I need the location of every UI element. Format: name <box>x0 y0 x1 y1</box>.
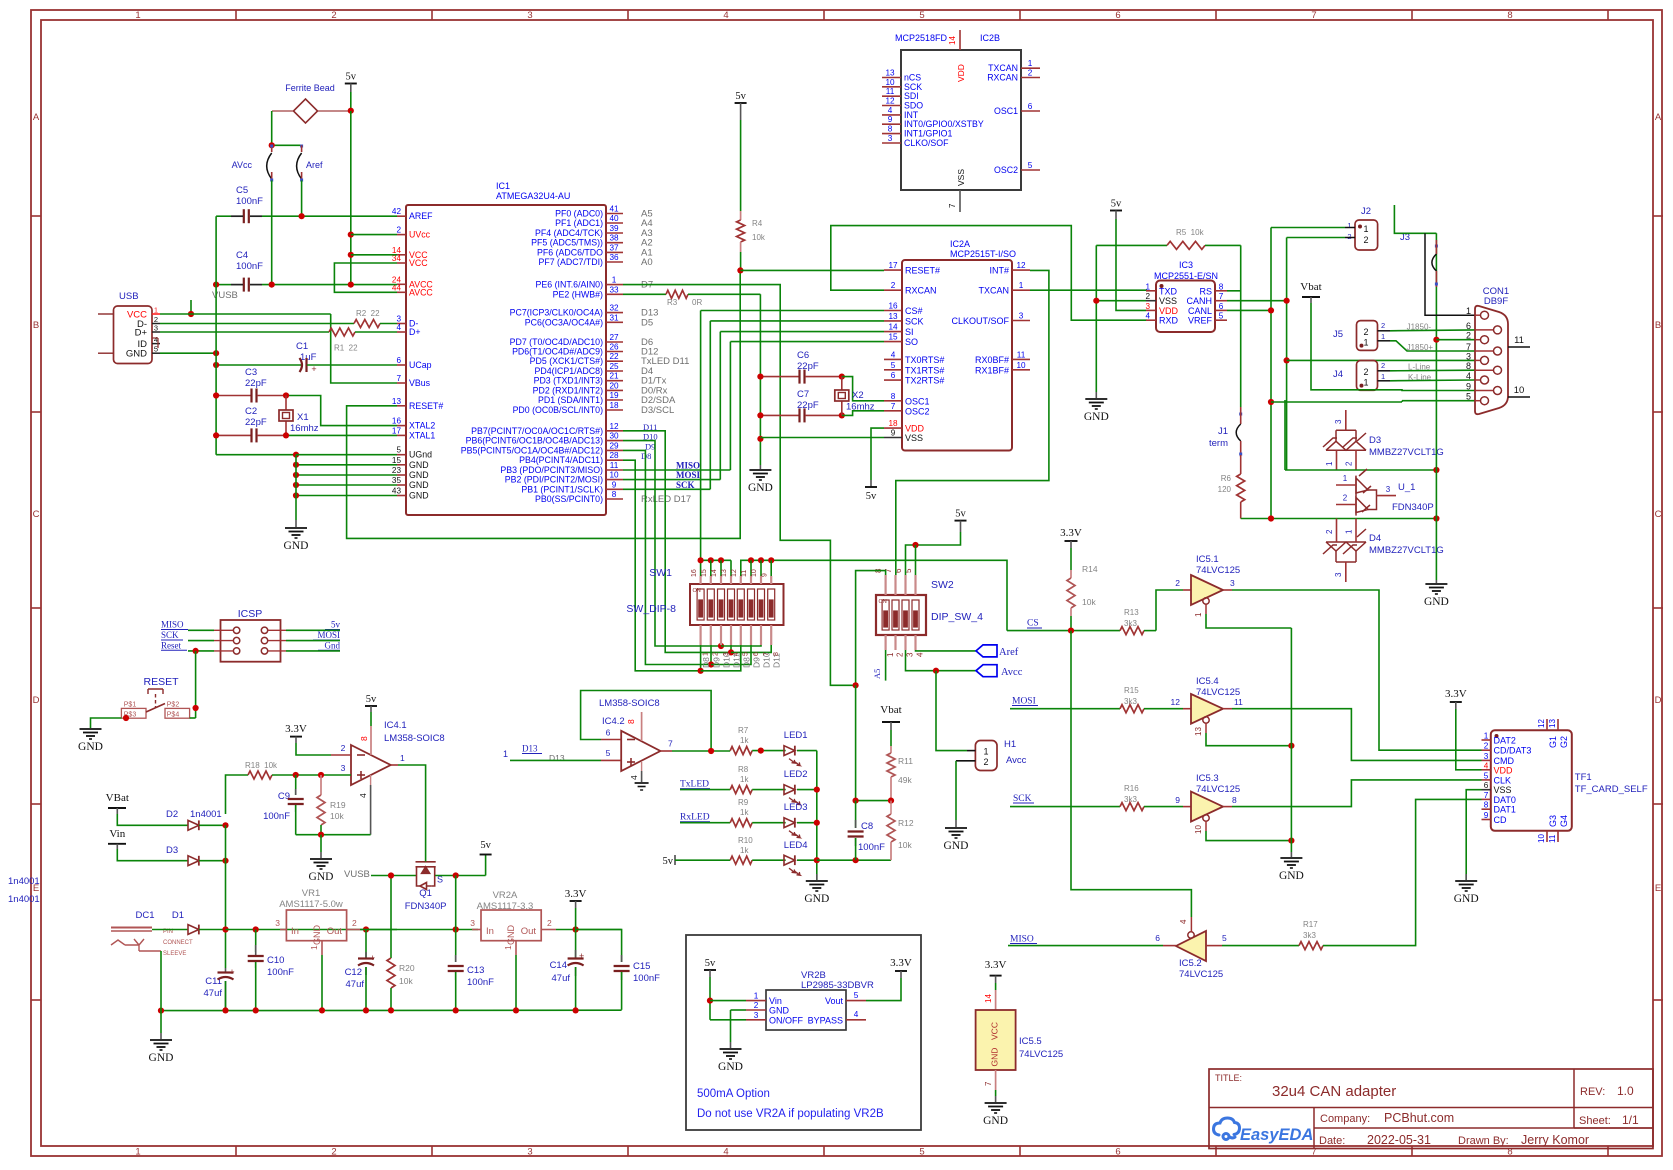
svg-text:11: 11 <box>1017 350 1026 359</box>
svg-text:41: 41 <box>609 205 619 214</box>
wire 5v to IC3 VDD <box>1116 219 1146 310</box>
svg-text:1: 1 <box>1019 281 1024 290</box>
svg-text:Out: Out <box>327 926 343 937</box>
svg-text:AREF: AREF <box>409 211 433 221</box>
net label A5 wire at SW2 pin1 <box>885 650 887 681</box>
wire Vout to 3.3V flag <box>866 978 901 1001</box>
svg-text:In: In <box>486 926 494 937</box>
svg-text:100nF: 100nF <box>236 196 263 207</box>
svg-text:CD: CD <box>1494 815 1507 825</box>
ground GND at TF1 <box>1465 874 1467 880</box>
IC TF1 TF_CARD_SELF body <box>1491 730 1572 831</box>
svg-text:In: In <box>291 926 299 937</box>
svg-text:MCP2551-E/SN: MCP2551-E/SN <box>1154 271 1218 281</box>
IC5.2 enable pin 4 <box>1190 917 1192 932</box>
svg-text:14: 14 <box>711 569 718 577</box>
svg-text:13: 13 <box>392 397 402 406</box>
svg-text:RX1BF#: RX1BF# <box>975 365 1009 375</box>
svg-text:DC1: DC1 <box>135 910 154 921</box>
svg-text:10k: 10k <box>898 840 912 850</box>
svg-text:5: 5 <box>606 748 611 758</box>
svg-text:1: 1 <box>1345 529 1354 534</box>
svg-text:13: 13 <box>885 69 895 78</box>
wire SW2 pin8 top to divider column <box>856 571 886 686</box>
svg-text:5v: 5v <box>866 491 877 502</box>
TF1 G pins top <box>1546 719 1548 730</box>
svg-text:2: 2 <box>1175 578 1180 588</box>
svg-text:LM358-SOIC8: LM358-SOIC8 <box>599 698 660 709</box>
svg-text:13: 13 <box>1548 719 1557 728</box>
svg-text:1.0: 1.0 <box>1617 1084 1634 1098</box>
svg-text:29: 29 <box>609 441 619 450</box>
svg-text:C10: C10 <box>267 955 284 966</box>
ground GND at VR2B <box>730 1042 732 1048</box>
svg-text:8: 8 <box>1466 361 1471 371</box>
svg-text:9: 9 <box>761 573 768 577</box>
svg-text:R7: R7 <box>738 726 749 735</box>
svg-text:R6: R6 <box>1221 474 1232 483</box>
svg-text:1: 1 <box>612 276 617 285</box>
svg-text:J1: J1 <box>1218 426 1228 437</box>
wire HWB/VSS ground column <box>759 294 761 465</box>
svg-text:D2: D2 <box>166 809 178 820</box>
svg-text:47uf: 47uf <box>204 988 223 999</box>
svg-text:120: 120 <box>1218 485 1232 494</box>
svg-text:VDD: VDD <box>1159 306 1179 316</box>
svg-text:10: 10 <box>1016 361 1026 370</box>
svg-text:D9: D9 <box>711 657 721 668</box>
svg-text:PE2 (HWB#): PE2 (HWB#) <box>553 289 603 299</box>
svg-text:D5: D5 <box>641 317 653 328</box>
svg-text:C6: C6 <box>797 350 809 361</box>
svg-text:5v: 5v <box>663 856 674 867</box>
svg-text:7: 7 <box>1311 10 1316 21</box>
IC5.3 enable to gnd bus <box>1205 821 1207 831</box>
wire OSC2 net <box>842 411 884 416</box>
svg-text:Out: Out <box>521 926 537 937</box>
svg-text:LED1: LED1 <box>784 730 808 741</box>
svg-text:GND: GND <box>804 893 829 905</box>
svg-text:D3: D3 <box>1369 435 1381 446</box>
svg-text:5v: 5v <box>735 91 746 102</box>
svg-text:32: 32 <box>609 304 619 313</box>
TF1 left pins <box>1482 739 1491 741</box>
svg-text:DAT0: DAT0 <box>1494 795 1516 805</box>
svg-text:1n4001: 1n4001 <box>8 876 40 887</box>
svg-text:OSC2: OSC2 <box>905 406 930 416</box>
svg-text:6: 6 <box>1115 10 1120 21</box>
svg-text:GND: GND <box>1084 411 1109 423</box>
svg-text:1: 1 <box>309 945 319 950</box>
power flag 5v above SW2 <box>955 520 967 522</box>
wire Q1 gate from comparator <box>425 858 427 862</box>
svg-text:IC5.4: IC5.4 <box>1196 676 1219 687</box>
svg-text:+: + <box>370 953 375 963</box>
svg-text:3: 3 <box>527 10 532 21</box>
svg-text:1: 1 <box>1363 338 1368 348</box>
svg-text:R15: R15 <box>1124 686 1139 695</box>
svg-text:22: 22 <box>609 352 619 361</box>
svg-text:C1: C1 <box>296 341 308 352</box>
svg-text:6: 6 <box>891 371 896 380</box>
svg-text:C9: C9 <box>278 791 290 802</box>
svg-text:R10: R10 <box>738 836 753 845</box>
svg-text:4: 4 <box>1466 371 1471 381</box>
svg-text:2: 2 <box>891 281 896 290</box>
svg-text:SLEEVE: SLEEVE <box>163 951 186 957</box>
svg-text:IC2B: IC2B <box>980 33 1000 43</box>
svg-text:P$1: P$1 <box>124 702 137 709</box>
svg-text:PC6(OC3A/OC4A#): PC6(OC3A/OC4A#) <box>525 317 603 327</box>
svg-text:12: 12 <box>1016 261 1026 270</box>
power flag 5v at ferrite <box>345 83 357 85</box>
svg-text:J4: J4 <box>1333 369 1343 380</box>
svg-text:14: 14 <box>948 36 957 45</box>
svg-text:2: 2 <box>1345 461 1354 466</box>
pin header H1 Avcc <box>975 741 997 771</box>
ground GND under D3 D4 <box>1435 580 1437 583</box>
svg-text:0R: 0R <box>692 298 702 307</box>
svg-text:VUSB: VUSB <box>344 869 370 880</box>
svg-text:MOSI: MOSI <box>317 630 340 640</box>
svg-text:PF1 (ADC1): PF1 (ADC1) <box>555 218 603 228</box>
svg-text:D+: D+ <box>409 327 421 337</box>
svg-text:CLKO/SOF: CLKO/SOF <box>904 138 949 148</box>
wire D3 cathode rail to GND column <box>1285 469 1436 471</box>
svg-text:PB4(PCINT4/ADC11): PB4(PCINT4/ADC11) <box>519 455 603 465</box>
svg-text:1k: 1k <box>740 736 749 745</box>
svg-text:3: 3 <box>1386 485 1391 494</box>
svg-text:R20: R20 <box>399 963 415 973</box>
IC3 left pins <box>1146 290 1156 292</box>
svg-text:CANH: CANH <box>1186 296 1212 306</box>
svg-text:12: 12 <box>885 97 895 106</box>
svg-text:C12: C12 <box>345 967 362 978</box>
svg-text:13: 13 <box>721 569 728 577</box>
svg-text:16: 16 <box>392 417 402 426</box>
svg-text:Company:: Company: <box>1320 1113 1370 1125</box>
wire CS row <box>1007 630 1120 632</box>
svg-text:500mA Option: 500mA Option <box>697 1088 770 1100</box>
ground GND at IC5.5 <box>985 1102 1007 1104</box>
svg-text:1k: 1k <box>740 808 749 817</box>
svg-text:10k: 10k <box>399 976 413 986</box>
svg-text:+: + <box>229 967 234 977</box>
svg-text:9: 9 <box>1466 382 1471 392</box>
svg-text:EasyEDA: EasyEDA <box>1240 1126 1313 1144</box>
svg-text:5: 5 <box>919 10 924 21</box>
wire Reset net to RESET switch <box>195 651 197 718</box>
wire 3.3V to minus input <box>295 737 297 743</box>
svg-text:26: 26 <box>609 343 619 352</box>
svg-text:GND: GND <box>312 925 322 946</box>
svg-text:3.3V: 3.3V <box>1060 527 1082 539</box>
ground GND at enable bus <box>1290 852 1292 857</box>
IC1 left pins <box>397 215 406 217</box>
svg-text:CS#: CS# <box>905 306 923 316</box>
svg-text:C: C <box>33 509 40 520</box>
svg-text:1k: 1k <box>740 846 749 855</box>
svg-text:8: 8 <box>773 652 780 656</box>
svg-text:3: 3 <box>1019 312 1024 321</box>
IC IC5.5 74LVC125 power part <box>995 983 997 990</box>
svg-text:C: C <box>1655 509 1662 520</box>
svg-text:FDN340P: FDN340P <box>405 901 447 912</box>
svg-text:GND: GND <box>1279 870 1304 882</box>
svg-text:10: 10 <box>1194 825 1203 834</box>
svg-text:4: 4 <box>723 1147 728 1158</box>
IC5.4 output to TF CMD <box>1223 708 1232 710</box>
svg-text:49k: 49k <box>898 775 912 785</box>
svg-text:21: 21 <box>609 372 619 381</box>
svg-text:2: 2 <box>331 10 336 21</box>
wire D8-D11 nest from IC1 to SW1 bottom <box>623 431 731 653</box>
wire D7 net from IC1 pin1 <box>623 285 856 686</box>
svg-text:C3: C3 <box>245 367 257 378</box>
wire INT# net from IC2A to SW2 pin7 <box>896 270 1049 575</box>
power flag 5v in VR2B box <box>704 969 716 971</box>
svg-text:1: 1 <box>1343 474 1348 483</box>
wire VR2B GND pin to ground <box>730 1010 732 1042</box>
svg-text:RESET: RESET <box>143 676 179 688</box>
svg-text:15: 15 <box>701 569 708 577</box>
svg-text:12: 12 <box>731 569 738 577</box>
svg-text:2: 2 <box>341 743 346 753</box>
svg-text:100nF: 100nF <box>858 842 885 853</box>
svg-text:11: 11 <box>1514 335 1524 346</box>
svg-text:16mhz: 16mhz <box>290 423 319 434</box>
svg-text:1: 1 <box>1363 378 1368 388</box>
svg-text:8: 8 <box>1484 801 1489 810</box>
wire RESET switch right side <box>190 717 196 719</box>
svg-text:4: 4 <box>358 793 368 798</box>
svg-text:AVcc: AVcc <box>232 160 253 170</box>
ground GND at RESET <box>80 728 102 730</box>
svg-text:9: 9 <box>891 429 896 438</box>
svg-text:RxLED D17: RxLED D17 <box>641 494 691 505</box>
svg-text:C5: C5 <box>236 185 248 196</box>
svg-text:1k: 1k <box>740 775 749 784</box>
svg-text:10: 10 <box>609 471 619 480</box>
svg-text:OSC1: OSC1 <box>994 106 1018 116</box>
svg-text:22pF: 22pF <box>245 417 267 428</box>
svg-text:H1: H1 <box>1004 739 1016 750</box>
svg-text:8: 8 <box>888 125 893 134</box>
svg-text:GND: GND <box>284 540 309 552</box>
svg-text:17: 17 <box>392 426 402 435</box>
svg-text:14: 14 <box>984 994 993 1003</box>
svg-text:GND: GND <box>409 470 429 480</box>
svg-text:Avcc: Avcc <box>1006 755 1027 766</box>
svg-text:PD1 (SDA/INT1): PD1 (SDA/INT1) <box>538 395 603 405</box>
svg-text:PF4 (ADC4/TCK): PF4 (ADC4/TCK) <box>535 228 603 238</box>
wire CANH net to J2 and DB9 pin3 <box>1227 300 1287 302</box>
svg-text:Ferrite Bead: Ferrite Bead <box>285 83 335 93</box>
svg-text:BYPASS: BYPASS <box>808 1016 843 1026</box>
svg-text:TX2RTS#: TX2RTS# <box>905 376 944 386</box>
svg-text:SCK: SCK <box>161 630 179 640</box>
svg-text:GND: GND <box>748 482 773 494</box>
svg-text:PF7 (ADC7/TDI): PF7 (ADC7/TDI) <box>538 257 603 267</box>
svg-text:P$4: P$4 <box>167 712 180 719</box>
wire divider node row <box>856 800 891 802</box>
svg-text:MCP2518FD: MCP2518FD <box>895 33 948 43</box>
IC2A right pins <box>1012 269 1030 271</box>
svg-text:100nF: 100nF <box>236 261 263 272</box>
svg-text:VCC: VCC <box>409 258 428 268</box>
svg-text:VR1: VR1 <box>302 888 320 899</box>
power flag 5v at IC3 VDD <box>1110 210 1122 212</box>
svg-text:PB6(PCINT6/OC1B/OC4B/ADC13): PB6(PCINT6/OC1B/OC4B/ADC13) <box>466 436 603 446</box>
svg-text:3.3V: 3.3V <box>565 888 587 900</box>
svg-text:6: 6 <box>1219 302 1224 311</box>
svg-text:+: + <box>579 951 584 961</box>
svg-text:5: 5 <box>1466 392 1471 402</box>
wire CS# net from IC2A to SW1 <box>701 310 884 312</box>
svg-text:X1: X1 <box>297 412 309 423</box>
svg-text:CANL: CANL <box>1188 306 1212 316</box>
TF1 G pins bottom <box>1546 831 1548 842</box>
svg-text:Vbat: Vbat <box>880 704 901 716</box>
svg-text:GND: GND <box>718 1061 743 1073</box>
left vertical ground bus from C5 row to UGnd row <box>215 216 217 455</box>
svg-text:UGnd: UGnd <box>409 450 432 460</box>
svg-text:23: 23 <box>392 466 402 475</box>
svg-text:3k3: 3k3 <box>1303 931 1316 940</box>
svg-text:GND: GND <box>769 1006 790 1016</box>
svg-text:1: 1 <box>135 10 140 21</box>
svg-text:XTAL2: XTAL2 <box>409 421 435 431</box>
svg-text:36: 36 <box>609 253 619 262</box>
svg-text:1: 1 <box>1466 306 1471 316</box>
VR1 GND pin 1 <box>321 941 323 955</box>
svg-text:2: 2 <box>331 1147 336 1158</box>
resistor R3 0R on HWB <box>623 293 666 295</box>
wire Vbat to J4 pin1 <box>1310 297 1312 303</box>
svg-text:32u4 CAN adapter: 32u4 CAN adapter <box>1272 1083 1396 1100</box>
IC IC2B MCP2518FD body <box>901 50 1021 190</box>
svg-text:2022-05-31: 2022-05-31 <box>1367 1133 1431 1147</box>
svg-text:2: 2 <box>1028 69 1033 78</box>
svg-text:J5: J5 <box>1333 329 1343 340</box>
svg-text:CONNECT: CONNECT <box>163 940 193 946</box>
svg-text:10k: 10k <box>1082 597 1096 607</box>
svg-text:PC7(ICP3/CLK0/OC4A): PC7(ICP3/CLK0/OC4A) <box>510 308 603 318</box>
VR2A GND pin 1 <box>515 941 517 955</box>
svg-text:4: 4 <box>1484 761 1489 770</box>
wire 5v rail into IC1 UVcc VCC <box>350 111 352 285</box>
svg-text:5: 5 <box>1219 312 1224 321</box>
svg-text:5: 5 <box>919 1147 924 1158</box>
svg-text:33: 33 <box>609 285 619 294</box>
svg-text:1: 1 <box>983 747 988 757</box>
wire R6 to CANL rail <box>1241 518 1271 520</box>
net port Avcc <box>976 665 997 677</box>
svg-text:D13: D13 <box>522 744 538 754</box>
svg-text:3: 3 <box>1484 752 1489 761</box>
wire CANL net to J2 and DB9 pin5 <box>1227 309 1271 311</box>
svg-text:8: 8 <box>1219 282 1224 291</box>
svg-text:GND: GND <box>409 480 429 490</box>
IC1 right pins <box>606 213 623 215</box>
svg-text:PF0 (ADC0): PF0 (ADC0) <box>555 209 603 219</box>
svg-text:19: 19 <box>609 391 619 400</box>
power flag 5v under IC2A VDD <box>870 480 872 487</box>
svg-text:2: 2 <box>754 1001 759 1010</box>
svg-text:TXCAN: TXCAN <box>978 286 1009 296</box>
svg-text:IC5.2: IC5.2 <box>1179 958 1202 969</box>
svg-text:Aref: Aref <box>999 647 1019 658</box>
wire DC1 sleeve to rail <box>160 951 162 1033</box>
wire AREF net: C5 row <box>216 215 231 217</box>
wire 5v to Vin and ON/OFF <box>709 977 711 1020</box>
IC4.2 pin 4 ground <box>641 762 643 771</box>
svg-text:G2: G2 <box>1559 736 1569 748</box>
svg-text:8: 8 <box>612 490 617 499</box>
svg-text:14: 14 <box>888 323 898 332</box>
svg-text:43: 43 <box>392 487 402 496</box>
wire RESET switch to ground <box>91 718 122 728</box>
IC5.4 enable to gnd bus <box>1205 723 1207 733</box>
wire ICSP left nets <box>188 629 214 631</box>
svg-text:10: 10 <box>751 569 758 577</box>
svg-text:11: 11 <box>741 570 748 577</box>
svg-text:15: 15 <box>888 333 898 342</box>
svg-text:6: 6 <box>1484 781 1489 790</box>
svg-text:TF1: TF1 <box>1575 772 1592 783</box>
svg-text:D13: D13 <box>549 753 565 763</box>
svg-text:MMBZ27VCLT1G: MMBZ27VCLT1G <box>1369 447 1444 458</box>
svg-text:A: A <box>33 112 40 123</box>
svg-text:3: 3 <box>1334 419 1343 424</box>
svg-text:REV:: REV: <box>1580 1086 1605 1098</box>
svg-text:Vout: Vout <box>825 996 844 1006</box>
diode D1 power <box>152 929 188 931</box>
svg-text:5: 5 <box>854 991 859 1000</box>
svg-text:RXCAN: RXCAN <box>987 73 1018 83</box>
wire 5v to SW2 pins 5 6 <box>906 532 961 575</box>
svg-text:LED2: LED2 <box>784 769 808 780</box>
wire H1 pin2 to ground <box>955 761 957 820</box>
svg-text:5: 5 <box>1028 161 1033 170</box>
svg-text:TITLE:: TITLE: <box>1215 1073 1242 1083</box>
svg-text:5v: 5v <box>1111 199 1122 210</box>
svg-text:PB7(PCINT7/OC0A/OC1C/RTS#): PB7(PCINT7/OC0A/OC1C/RTS#) <box>471 426 603 436</box>
ground GND at comparator <box>320 835 322 852</box>
svg-text:2: 2 <box>896 652 905 657</box>
svg-text:1: 1 <box>1381 332 1385 341</box>
ground GND below H1 <box>955 820 957 827</box>
svg-text:74LVC125: 74LVC125 <box>1019 1049 1063 1060</box>
svg-text:INT#: INT# <box>989 266 1009 276</box>
svg-text:D8: D8 <box>701 657 711 668</box>
svg-text:3.3V: 3.3V <box>1445 688 1467 700</box>
svg-text:11: 11 <box>886 87 895 96</box>
svg-text:1: 1 <box>1145 282 1150 291</box>
svg-text:4: 4 <box>396 323 401 332</box>
wire GND column right of DB9 <box>1435 233 1437 580</box>
svg-text:Sheet:: Sheet: <box>1579 1115 1611 1127</box>
wire VUSB row to Q1 <box>371 875 416 877</box>
svg-text:1/1: 1/1 <box>1622 1113 1639 1127</box>
svg-text:R18 10k: R18 10k <box>245 761 278 770</box>
wire enable ground bus column <box>1290 628 1292 852</box>
wire R18 from VBat column <box>226 775 231 814</box>
svg-text:C8: C8 <box>861 821 873 832</box>
svg-text:CS: CS <box>1027 619 1039 629</box>
svg-text:LED4: LED4 <box>784 840 808 851</box>
svg-text:8: 8 <box>1507 10 1512 21</box>
